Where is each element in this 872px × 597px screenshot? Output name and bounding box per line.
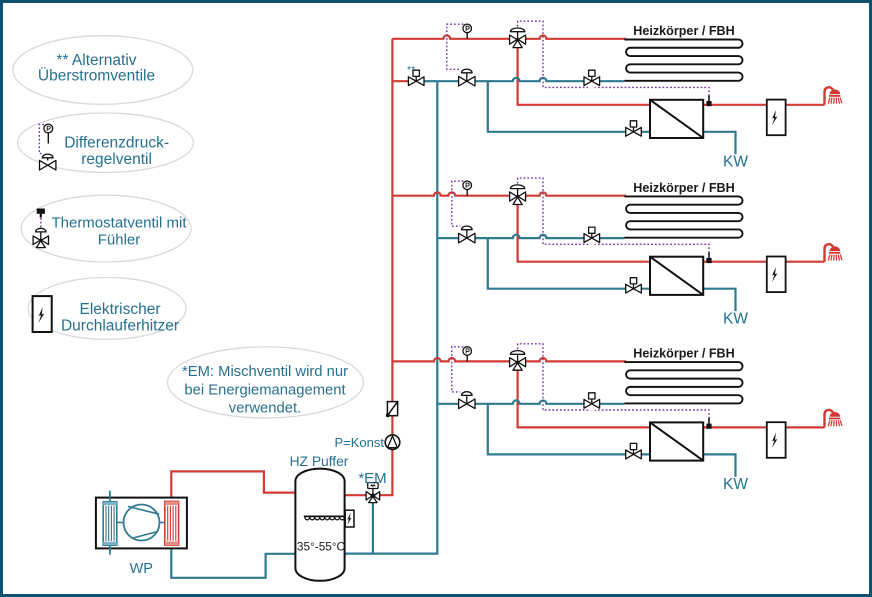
svg-text:verwendet.: verwendet. [229, 401, 301, 417]
svg-text:regelventil: regelventil [81, 151, 152, 168]
svg-text:Überstromventile: Überstromventile [38, 67, 155, 85]
svg-text:Durchlauferhitzer: Durchlauferhitzer [61, 318, 179, 335]
svg-text:P=Konst: P=Konst [334, 435, 384, 450]
svg-text:Thermostatventil mit: Thermostatventil mit [51, 215, 187, 232]
svg-text:HZ Puffer: HZ Puffer [290, 454, 349, 469]
svg-text:*EM: Mischventil wird nur: *EM: Mischventil wird nur [182, 364, 348, 380]
svg-text:** Alternativ: ** Alternativ [56, 52, 136, 69]
svg-text:35°-55°C: 35°-55°C [297, 540, 346, 554]
svg-text:*EM: *EM [358, 470, 386, 487]
svg-text:WP: WP [130, 561, 153, 577]
svg-text:Elektrischer: Elektrischer [80, 301, 161, 318]
svg-text:bei Energiemanagement: bei Energiemanagement [184, 382, 345, 398]
svg-text:Differenzdruck-: Differenzdruck- [64, 134, 169, 151]
svg-text:Fühler: Fühler [98, 231, 141, 248]
